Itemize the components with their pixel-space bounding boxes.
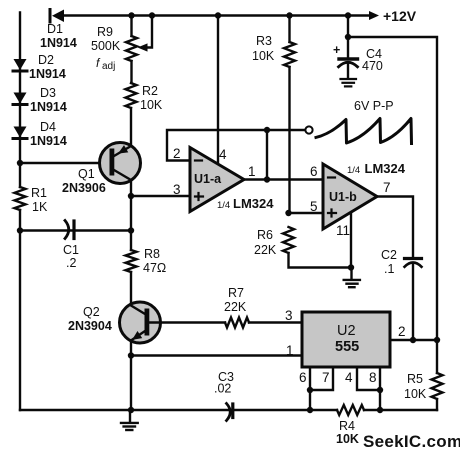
wire R2 to Q1 emitter [130, 108, 132, 146]
node feedback top [264, 127, 270, 133]
svg-text:R6: R6 [257, 228, 273, 242]
svg-text:R5: R5 [407, 372, 423, 386]
wire R8 to Q2 collector [130, 272, 132, 305]
svg-text:500K: 500K [91, 39, 121, 53]
label R8 [143, 247, 166, 275]
svg-text:7: 7 [322, 370, 330, 385]
node output [264, 176, 270, 182]
wire R9 to R2 [130, 61, 132, 83]
label R5 [404, 372, 427, 401]
svg-text:6V P-P: 6V P-P [354, 99, 394, 113]
wire R9 top stub [130, 16, 132, 37]
wire Q1 collector down [130, 180, 132, 231]
label C3 [214, 370, 234, 396]
label R2 [140, 84, 163, 112]
svg-text:1N914: 1N914 [30, 134, 67, 148]
ground C4 [341, 79, 357, 86]
svg-text:U2: U2 [337, 323, 356, 339]
wire R3 to pin5 node [288, 67, 290, 213]
resistor R1 [15, 187, 26, 210]
resistor R7 [225, 318, 249, 328]
label R7 [224, 286, 247, 314]
node C1 junction on rail [17, 227, 23, 233]
pin labels U2 bottom [299, 370, 377, 385]
R9 wiper arrowhead [138, 43, 148, 51]
wire rail to C1 [20, 229, 72, 231]
svg-text:2: 2 [398, 324, 406, 339]
label R6 [254, 228, 277, 257]
wire pin11 [350, 212, 352, 268]
wire 555 pin8 stub [379, 367, 381, 410]
svg-text:5: 5 [310, 199, 318, 214]
wire R7 to 555 pin 3 [249, 321, 302, 323]
ground bottom center [121, 410, 138, 430]
svg-text:555: 555 [335, 339, 359, 355]
wire top rail to +12V [64, 14, 372, 16]
wire C4 branch [347, 16, 349, 58]
capacitor C2 [405, 259, 422, 341]
label U2 [335, 323, 359, 355]
svg-text:R7: R7 [228, 286, 244, 300]
svg-text:10K: 10K [140, 98, 163, 112]
node C4 top [345, 12, 351, 18]
svg-text:R4: R4 [339, 419, 355, 433]
svg-text:R2: R2 [142, 84, 158, 98]
svg-text:D1: D1 [47, 22, 63, 36]
capacitor C3 [227, 404, 311, 421]
wire 555 pin4 stub [357, 367, 380, 390]
svg-text:1: 1 [286, 343, 294, 358]
node R9 top [128, 12, 134, 18]
svg-text:C2: C2 [381, 248, 397, 262]
svg-text:.2: .2 [66, 256, 76, 270]
resistor R6 [283, 227, 294, 253]
label Q2 [68, 305, 112, 333]
IC U2 555 [302, 312, 390, 367]
waveform sawtooth [316, 119, 412, 144]
wire pin5 [289, 212, 324, 214]
svg-text:adj: adj [102, 61, 115, 72]
wire 555 pin7 stub [310, 367, 333, 390]
svg-text:1/4: 1/4 [217, 200, 230, 211]
transistor Q1 [100, 143, 141, 184]
label C1 [63, 243, 79, 270]
svg-text:470: 470 [362, 59, 383, 73]
node C1 right junction [128, 227, 134, 233]
wire U1-a output [244, 178, 323, 180]
wire rail to Q1 base [20, 162, 110, 164]
resistor R2 [126, 83, 137, 108]
diode D1 [50, 10, 64, 23]
svg-text:1/4: 1/4 [347, 165, 360, 176]
svg-text:2N3906: 2N3906 [62, 181, 106, 195]
svg-text:LM324: LM324 [365, 161, 406, 176]
node base Q1 junction on rail [17, 160, 23, 166]
label +12V [383, 8, 417, 24]
wire U1-a pin4 from top rail [217, 16, 219, 165]
node 555 pin1 junction [128, 352, 134, 358]
label R4 [336, 419, 359, 446]
label R9 [91, 25, 121, 72]
label C4 plus [333, 43, 340, 57]
wire right rail [348, 37, 437, 340]
label C4 [362, 47, 383, 73]
svg-text:.02: .02 [214, 382, 231, 396]
node pin4-8 [377, 387, 383, 393]
svg-text:U1-a: U1-a [194, 172, 222, 186]
svg-text:2: 2 [173, 146, 181, 161]
svg-text:22K: 22K [224, 300, 247, 314]
transistor Q2 [120, 302, 161, 343]
svg-text:6: 6 [299, 370, 307, 385]
svg-text:Q1: Q1 [78, 167, 95, 181]
label 6V P-P [354, 99, 394, 113]
diode D3 [13, 93, 27, 105]
svg-text:LM324: LM324 [233, 196, 274, 211]
svg-text:4: 4 [219, 147, 227, 162]
op-amp U1-a [190, 148, 244, 212]
label D4 [30, 120, 67, 148]
wire to 555 pin 1 [131, 354, 302, 356]
svg-text:1N914: 1N914 [40, 36, 77, 50]
label 1/4 LM324 (U1-b) [347, 161, 406, 176]
wire 555 pin 2 [390, 339, 437, 341]
op-amp U1-b [323, 164, 377, 229]
node R9 wiper top [149, 12, 155, 18]
node pin11 ground [348, 264, 354, 270]
node ground junction bottom [128, 407, 134, 413]
node pin6-7 [307, 387, 313, 393]
wire feedback vertical [266, 130, 268, 180]
label Q1 [62, 167, 106, 195]
capacitor C4 [339, 59, 358, 79]
wire R9 wiper [147, 16, 153, 48]
svg-text:8: 8 [369, 370, 377, 385]
svg-text:+: + [333, 43, 340, 57]
resistor R8 [126, 250, 137, 272]
diode D4 [13, 127, 27, 139]
wire bottom rail left [20, 409, 231, 411]
node R3 top [286, 12, 292, 18]
label U1-a [194, 172, 222, 186]
svg-text:R1: R1 [31, 186, 47, 200]
svg-text:4: 4 [345, 370, 353, 385]
resistor R5 [432, 340, 443, 410]
label D3 [30, 86, 67, 114]
svg-text:7: 7 [383, 180, 391, 195]
label U1-b [329, 190, 357, 204]
svg-text:+12V: +12V [383, 8, 417, 24]
node right rail top [345, 34, 351, 40]
resistor R4 [337, 405, 364, 415]
node pin8 bottom [377, 407, 383, 413]
svg-text:D2: D2 [38, 53, 54, 67]
svg-text:1: 1 [248, 164, 256, 179]
wire Q2 base to R7 [149, 321, 225, 323]
svg-text:D4: D4 [40, 120, 56, 134]
pin labels U1-b [310, 164, 391, 238]
label R1 [31, 186, 48, 214]
svg-text:10K: 10K [336, 432, 359, 446]
svg-text:47Ω: 47Ω [143, 261, 166, 275]
label R3 [252, 34, 275, 63]
label 1/4 LM324 (U1-a) [217, 196, 274, 211]
node pin4 top [215, 12, 221, 18]
svg-text:SeekIC.com: SeekIC.com [363, 432, 460, 451]
wire 555 pin6 stub [309, 367, 311, 410]
svg-text:D3: D3 [40, 86, 56, 100]
label D1 [40, 22, 77, 50]
wire U1-b output to C2 [377, 197, 413, 258]
resistor R9 [126, 36, 137, 61]
node C2 bottom [410, 337, 416, 343]
svg-text:R9: R9 [97, 25, 113, 39]
svg-text:1K: 1K [32, 200, 48, 214]
svg-text:22K: 22K [254, 243, 277, 257]
wire left rail [19, 13, 21, 411]
svg-text:10K: 10K [252, 49, 275, 63]
svg-text:3: 3 [285, 308, 293, 323]
svg-text:2N3904: 2N3904 [68, 319, 112, 333]
svg-text:R3: R3 [256, 34, 272, 48]
pin labels U1-a [173, 146, 256, 197]
svg-text:.1: .1 [384, 262, 394, 276]
resistor R3 [284, 42, 295, 67]
diode D2 [13, 59, 27, 71]
wire to U1-a pin 3 [131, 195, 190, 197]
node right rail pin2 [434, 337, 440, 343]
node pin5 [285, 210, 291, 216]
ground U1-b [344, 268, 360, 288]
wire R3 top stub [288, 16, 290, 43]
+12V arrowhead [369, 11, 379, 20]
node pin6 bottom [307, 407, 313, 413]
wire U1-a feedback [167, 130, 306, 161]
terminal open circle [305, 126, 312, 133]
wire R6 bottom to ground node [289, 253, 352, 268]
svg-text:1N914: 1N914 [30, 100, 67, 114]
pin labels U2 left [285, 308, 294, 358]
svg-text:Q2: Q2 [83, 305, 100, 319]
svg-text:11: 11 [336, 223, 350, 238]
svg-text:3: 3 [173, 182, 181, 197]
capacitor C1 [65, 221, 131, 239]
label pin 2 [398, 324, 406, 339]
svg-text:R8: R8 [144, 247, 160, 261]
svg-text:U1-b: U1-b [329, 190, 357, 204]
svg-text:1N914: 1N914 [29, 67, 66, 81]
wire bottom rail right [310, 409, 437, 411]
wire Q2 emitter down [130, 341, 132, 411]
node pin3 junction [128, 193, 134, 199]
wire C1 node to R8 [130, 231, 132, 251]
svg-text:C1: C1 [63, 243, 79, 257]
label C2 [381, 248, 397, 276]
label D2 [29, 53, 66, 81]
svg-text:6: 6 [310, 164, 318, 179]
svg-text:f: f [96, 56, 101, 70]
svg-text:10K: 10K [404, 387, 427, 401]
